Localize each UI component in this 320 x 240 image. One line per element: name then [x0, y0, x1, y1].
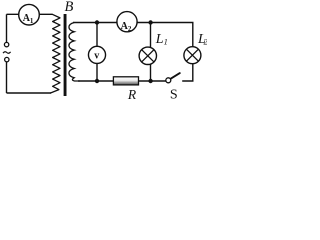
wire: L1 branch lower: [150, 64, 152, 81]
wire: bottom right segment to L2: [182, 64, 193, 81]
svg-text:v: v: [94, 51, 99, 62]
svg-text:L2: L2: [197, 32, 207, 47]
wire: L1 branch upper: [150, 23, 152, 48]
svg-text:R: R: [127, 87, 137, 102]
wire: voltmeter branch: [96, 23, 98, 82]
lamp L1: [139, 47, 156, 64]
wire: primary top from source to coil: [7, 13, 53, 15]
svg-text:B: B: [65, 0, 74, 15]
wire: secondary bottom rail left of resistor: [78, 80, 114, 82]
switch S pivot: [166, 78, 171, 83]
switch S lever: [171, 73, 180, 79]
node: junction top at L1 branch: [148, 20, 152, 24]
node: junction top at voltmeter branch: [95, 20, 99, 24]
voltmeter V: [88, 46, 105, 63]
wire: left vertical upper: [6, 14, 8, 42]
terminal lower of AC source: [5, 57, 9, 61]
ammeter A2: [117, 12, 137, 32]
wire: primary bottom: [7, 92, 52, 94]
node: junction bottom at voltmeter branch: [95, 79, 99, 83]
terminal upper of AC source: [4, 42, 8, 46]
wire: secondary bottom rail right of resistor: [138, 80, 166, 82]
svg-text:S: S: [170, 88, 178, 103]
node: junction bottom at L1/switch: [148, 79, 152, 83]
primary winding of transformer: [51, 14, 61, 93]
wire: left vertical lower: [6, 62, 8, 93]
ammeter A1: [19, 4, 40, 25]
secondary winding of transformer: [69, 23, 80, 82]
wire: secondary top rail: [73, 23, 193, 47]
AC tilde symbol: [3, 52, 11, 54]
transformer core B: [64, 14, 67, 96]
lamp L2: [184, 47, 201, 64]
resistor R: [113, 77, 138, 85]
